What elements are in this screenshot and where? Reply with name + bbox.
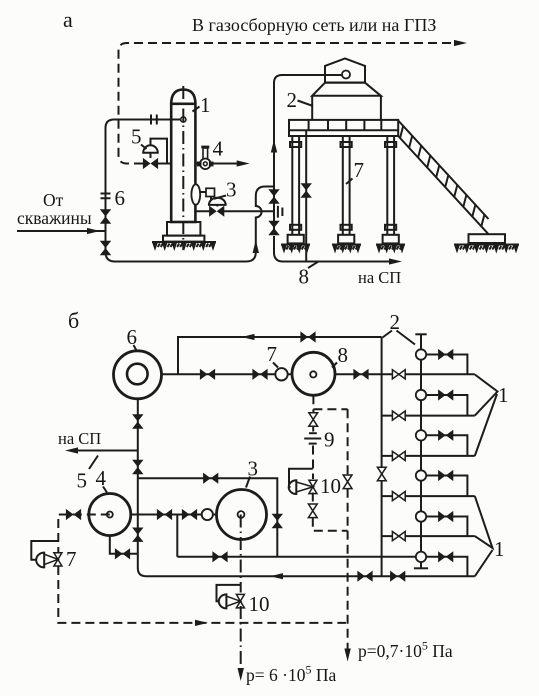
wire: well 3 outlet loop: [426, 435, 467, 456]
tick to label 8: [332, 363, 337, 368]
valve 10 lower side triangle: [226, 596, 240, 606]
flange 6 on riser: [101, 194, 111, 199]
ground hatch under separator: [152, 242, 216, 251]
well 6 circle: [416, 552, 426, 562]
wire: main row A line: [162, 373, 382, 375]
svg-text:В газосборную сеть или на ГПЗ: В газосборную сеть или на ГПЗ: [192, 15, 436, 35]
wire: dashed line from valve 7 to the right: [58, 566, 346, 623]
valve 3 bowtie: [209, 206, 224, 217]
separator skirt: [167, 222, 200, 236]
svg-text:7: 7: [267, 342, 278, 366]
staircase: [398, 121, 488, 235]
valve on pump 4 drain: [115, 548, 130, 559]
svg-text:на СП: на СП: [358, 268, 401, 287]
pointer lines to label 1 upper: [475, 375, 498, 456]
svg-text:2: 2: [287, 88, 298, 112]
sensor 9: bottom bar: [309, 443, 317, 445]
wire: main vertical from compressor 6 down: [138, 399, 475, 576]
arrowhead down p=6: [238, 668, 244, 681]
pointer lines to label 1 lower: [475, 496, 493, 576]
arrowhead left on return line: [270, 573, 283, 579]
instrument 4: top cap: [201, 146, 209, 149]
valve 3 actuator dome: [209, 198, 226, 205]
wire: well line vertical: [420, 334, 422, 568]
tick to label 8: [308, 262, 318, 268]
valve on top line: [300, 331, 315, 342]
svg-text:p=0,7·105 Па: p=0,7·105 Па: [358, 639, 453, 662]
wire: manifold stub 2: [382, 415, 475, 417]
compressor 6 inner circle: [127, 364, 148, 385]
ticks from label 2: [383, 331, 416, 345]
wire: V1 drop from row 4: [176, 515, 178, 557]
wire: manifold stub 3: [382, 455, 475, 457]
valve row A second: [252, 369, 267, 380]
valve 10 upper actuator dome: [289, 480, 297, 494]
tick to label 1: [193, 107, 200, 112]
small device circle (row 4): [202, 509, 213, 520]
arrowhead from well: [87, 228, 100, 234]
pump 3 center dot: [238, 511, 245, 518]
wire: manifold stub 1: [382, 373, 475, 375]
svg-text:5: 5: [77, 469, 88, 493]
valve 5 impulse bracket: [151, 139, 168, 164]
well 5 circle: [416, 511, 426, 521]
wire: dashed corner to right riser: [313, 518, 348, 531]
tick to label 3: [246, 477, 250, 488]
wire: line 1 down to на СП line: [274, 236, 393, 262]
arrowhead outlet 4: [237, 160, 250, 166]
svg-text:9: 9: [324, 428, 335, 452]
control valve 10 lower: vertical bowtie: [236, 594, 244, 608]
separator axis line: [182, 86, 184, 250]
wire: manifold stub 5: [382, 535, 475, 537]
wire: from well inlet arrow: [17, 230, 106, 232]
tick to label 7: [273, 363, 278, 368]
svg-text:1: 1: [498, 383, 509, 407]
sensor 9: top bar: [309, 432, 317, 434]
valve well 5 outlet: [438, 511, 453, 522]
wire: dash-dot down to p=6 arrow: [240, 606, 242, 672]
control valve 10 upper: vertical bowtie: [309, 480, 317, 493]
sensor 9: long bar: [304, 438, 321, 440]
svg-text:6: 6: [127, 325, 138, 349]
arrowhead left on top line: [242, 334, 255, 340]
tank leg 3: [383, 136, 399, 243]
tick to label 5: [141, 145, 147, 150]
svg-text:4: 4: [213, 137, 224, 161]
well line bottom bar: [414, 567, 428, 569]
valve 7 actuator dome: [36, 553, 44, 568]
wire: на СП line (part b): [74, 450, 138, 452]
wire: pump 4 drain: [110, 536, 138, 554]
svg-text:7: 7: [354, 158, 365, 182]
wire: well 5 outlet loop: [426, 517, 467, 537]
wire: line 1 riser to tank: [274, 75, 342, 230]
staircase footing: [469, 234, 506, 243]
svg-text:p= 6 ·105 Па: p= 6 ·105 Па: [246, 663, 336, 686]
valve on line 1 upper: [268, 189, 279, 203]
valve row 4 first: [157, 509, 172, 520]
svg-text:7: 7: [66, 547, 77, 571]
level device 3: ellipse on vessel wall: [191, 184, 200, 204]
valve row 4 second: [182, 509, 197, 520]
wire: valve 5 outlet into vessel: [158, 163, 171, 165]
wire: dashed below valve 10 upper: [312, 493, 314, 505]
tick to label 4: [103, 487, 107, 493]
tick to label 2: [298, 101, 314, 107]
separator 8 center dot: [310, 371, 316, 377]
svg-text:От: От: [43, 190, 64, 210]
wire: well 6 outlet loop: [426, 557, 467, 576]
compressor 6 outer circle: [114, 351, 162, 399]
tank 2: cap house: [325, 59, 365, 83]
well 4 circle: [416, 470, 426, 480]
valve 3 stem: [216, 205, 218, 207]
hollow valve below separator 8: [309, 413, 318, 427]
arrowhead на СП (part a): [389, 258, 402, 264]
instrument 4: inner dot: [203, 162, 207, 166]
wire: bypass line H1: [138, 478, 277, 557]
wire: line L1 to last well: [177, 556, 416, 558]
wire: dashed branch corner to right riser: [313, 408, 347, 410]
wire: dashed right riser lower part: [347, 489, 349, 653]
wire: manifold collector: [381, 337, 383, 576]
svg-text:б: б: [68, 308, 79, 333]
wire: row 4 line: [131, 514, 217, 516]
wire: dashed from sensor 9 down to valve 10: [312, 446, 314, 480]
valve 5 stem: [150, 153, 152, 158]
valve on dashed suction: [66, 509, 81, 520]
valve on return line left: [357, 571, 372, 582]
hollow valve manifold stub 5: [392, 532, 405, 541]
hollow valve on collector: [377, 467, 386, 481]
tank 2: cap nozzle circle: [342, 71, 350, 79]
wire: top gas line from junction to collector: [178, 337, 382, 374]
valve well 1 outlet: [438, 349, 453, 360]
wire: well 4 outlet loop: [426, 476, 467, 497]
flange pair on separator top line: [151, 115, 157, 125]
well line top bar: [415, 333, 426, 335]
wire: gas outlet 4 line with arrow: [195, 163, 241, 165]
valve row A first: [200, 369, 215, 380]
valve 10 upper side triangle: [296, 482, 313, 492]
valve right of separator 8: [353, 369, 368, 380]
valve on H1: [203, 473, 218, 484]
wire: dashed right riser down to p=0.7 arrow: [347, 409, 349, 475]
svg-text:скважины: скважины: [17, 208, 92, 228]
blind flange pair at pipe end: [278, 206, 283, 218]
valve 7 impulse bracket: [31, 541, 58, 560]
tick to label 7: [346, 179, 353, 185]
hollow valve manifold stub 1: [392, 370, 405, 379]
valve well 2 outlet: [438, 389, 453, 400]
arrowhead right on lower dashed line: [195, 620, 208, 626]
instrument 4: stem rect: [203, 148, 208, 159]
tank 2: cone section: [312, 83, 381, 96]
wire: dashed down to battery 9: [312, 427, 314, 432]
valve on riser upper: [100, 209, 111, 223]
separator vessel 1: dome: [171, 90, 195, 105]
valve 7 side triangle: [44, 554, 58, 564]
well rows group: [382, 349, 475, 576]
controller box 3: [206, 188, 215, 196]
pump 4 center dot: [107, 512, 113, 518]
svg-text:10: 10: [249, 592, 270, 616]
svg-text:1: 1: [494, 537, 505, 561]
wire: liquid outlet pipe from vessel through valve 3: [195, 210, 274, 212]
valve on riser lower: [100, 241, 111, 255]
wire: bottom bypass line to line 2 with hop over pipe-3: [106, 187, 275, 262]
valve main vertical middle: [132, 460, 143, 474]
wire: dashed flare line from valve 5 up and right: [119, 43, 460, 164]
hollow valve manifold stub 3: [392, 451, 405, 460]
svg-text:8: 8: [299, 265, 310, 289]
svg-text:8: 8: [338, 343, 349, 367]
svg-text:4: 4: [96, 466, 107, 490]
wire: dashed line below separator 8: [312, 395, 314, 412]
separator body: [171, 104, 195, 222]
svg-text:3: 3: [226, 178, 237, 202]
svg-text:10: 10: [320, 474, 341, 498]
well 1 circle: [416, 349, 426, 359]
valve on tank drain: [301, 183, 312, 197]
arrowhead up on line 1: [271, 140, 277, 153]
well 3 circle: [416, 430, 426, 440]
valve main vertical lower: [132, 528, 143, 542]
wire: well riser up to separator top line: [106, 120, 182, 232]
hollow valve on right riser: [343, 475, 352, 489]
wire: device 3 to controller box: [200, 191, 206, 193]
valve well 6 outlet: [438, 551, 453, 562]
svg-text:1: 1: [200, 93, 211, 117]
tank leg 2: [338, 136, 354, 243]
wire: tank drain line: [305, 130, 307, 261]
control valve 5: bowtie: [143, 158, 158, 169]
wire: dashed suction line to pump 4: [58, 515, 110, 554]
valve on return line right: [390, 571, 405, 582]
separator base plate: [163, 236, 204, 242]
wire: manifold stub 4: [382, 495, 475, 497]
tick to label 6: [134, 345, 137, 351]
hollow valve below valve 10: [308, 504, 317, 518]
svg-text:а: а: [63, 7, 73, 32]
valve 10 lower actuator dome: [219, 594, 227, 608]
tank 2: platform band: [289, 120, 398, 136]
svg-text:5: 5: [131, 125, 142, 149]
instrument 4: side flange squares: [197, 162, 202, 167]
ground hatch under tank legs and stairs: [281, 245, 519, 254]
arrowhead на СП (part b): [65, 447, 78, 453]
valve on L1: [212, 551, 227, 562]
wire: well 1 outlet loop: [426, 355, 467, 375]
valve main vertical upper: [132, 414, 143, 428]
valve well 4 outlet: [438, 470, 453, 481]
tick to label 3: [214, 196, 226, 199]
nozzle circle on separator top: [181, 117, 186, 122]
svg-text:6: 6: [115, 186, 126, 210]
valve 5 actuator dome: [143, 145, 158, 153]
control valve 7 (part b): vertical bowtie: [54, 553, 62, 566]
wire: well 2 outlet loop: [426, 395, 467, 416]
small device 7 circle (row A): [275, 368, 287, 380]
valve 10 upper impulse bracket: [289, 469, 313, 487]
valve on line 1 lower: [268, 221, 279, 235]
tick to label 5: [89, 456, 98, 470]
tank 2: body: [312, 96, 381, 120]
hollow valve manifold stub 2: [392, 411, 405, 420]
hollow valve manifold stub 4: [392, 492, 405, 501]
separator 8 circle: [292, 352, 335, 395]
arrowhead up on bypass line 2: [253, 240, 259, 253]
wire: controller to valve actuator: [210, 197, 212, 201]
valve on V2: [272, 514, 283, 528]
valve 10 lower impulse bracket: [217, 585, 241, 601]
separator dome base line: [171, 103, 195, 105]
arrowhead down p=0.7: [344, 649, 350, 662]
svg-text:на СП: на СП: [58, 429, 101, 448]
pump 4 circle: [89, 494, 131, 536]
well 2 circle: [416, 390, 426, 400]
arrowhead to gas network: [454, 40, 467, 46]
wire: dash-dot from pump 3 down: [240, 515, 242, 593]
pump 3 circle: [217, 490, 267, 540]
instrument 4: circle: [200, 159, 211, 170]
tank leg 1: [288, 136, 304, 243]
valve well 3 outlet: [438, 430, 453, 441]
